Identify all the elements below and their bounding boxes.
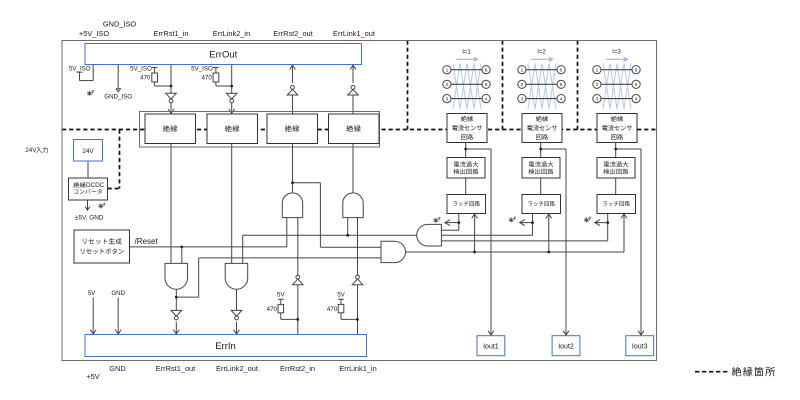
svg-text:5V: 5V (277, 292, 285, 299)
svg-text:Iout3: Iout3 (632, 344, 648, 351)
svg-text:I=3: I=3 (612, 50, 621, 56)
svg-text:1: 1 (521, 67, 524, 73)
svg-text:ErrRst2_in: ErrRst2_in (280, 364, 315, 373)
svg-text:6: 6 (485, 67, 488, 73)
svg-text:I=1: I=1 (462, 50, 471, 56)
svg-text:5V_ISO: 5V_ISO (69, 65, 91, 72)
svg-text:ErrRst1_out: ErrRst1_out (156, 364, 195, 373)
svg-text:ErrLink2_in: ErrLink2_in (213, 29, 250, 38)
svg-text:5V: 5V (337, 292, 345, 299)
svg-text:I=2: I=2 (537, 50, 546, 56)
svg-text:ErrIn: ErrIn (215, 341, 236, 352)
svg-text:GND_ISO: GND_ISO (103, 20, 137, 29)
svg-text:ErrRst2_out: ErrRst2_out (273, 29, 312, 38)
svg-text:5V_ISO: 5V_ISO (130, 65, 152, 72)
svg-text:Iout1: Iout1 (483, 344, 499, 351)
svg-text:2: 2 (446, 82, 449, 88)
svg-text:ErrLink2_out: ErrLink2_out (216, 364, 258, 373)
svg-text:5: 5 (560, 82, 563, 88)
svg-text:±5V, GND: ±5V, GND (75, 214, 104, 221)
svg-text:GND: GND (109, 364, 125, 373)
svg-text:/Reset: /Reset (135, 237, 159, 246)
svg-text:3: 3 (596, 96, 599, 102)
svg-text:5: 5 (485, 82, 488, 88)
svg-text:470: 470 (267, 306, 278, 313)
svg-text:ErrOut: ErrOut (209, 49, 237, 60)
svg-text:DCDC: DCDC (86, 182, 105, 189)
svg-text:ErrLink1_in: ErrLink1_in (339, 364, 376, 373)
svg-text:Iout2: Iout2 (558, 344, 574, 351)
svg-text:+5V: +5V (86, 372, 99, 381)
svg-text:1: 1 (596, 67, 599, 73)
svg-text:470: 470 (140, 75, 151, 82)
svg-text:5V: 5V (88, 290, 96, 297)
svg-text:2: 2 (596, 82, 599, 88)
svg-text:24V: 24V (82, 148, 94, 155)
svg-text:2: 2 (521, 82, 524, 88)
svg-text:5V_ISO: 5V_ISO (191, 65, 213, 72)
svg-text:+5V_ISO: +5V_ISO (79, 29, 109, 38)
svg-text:24V: 24V (25, 147, 37, 154)
svg-text:470: 470 (327, 306, 338, 313)
svg-text:GND_ISO: GND_ISO (104, 93, 132, 100)
svg-text:ErrRst1_in: ErrRst1_in (154, 29, 189, 38)
svg-text:GND: GND (111, 290, 125, 297)
svg-text:6: 6 (635, 67, 638, 73)
svg-text:3: 3 (521, 96, 524, 102)
svg-text:1: 1 (446, 67, 449, 73)
svg-text:6: 6 (560, 67, 563, 73)
svg-text:ErrLink1_out: ErrLink1_out (333, 29, 375, 38)
svg-text:5: 5 (635, 82, 638, 88)
svg-text:4: 4 (560, 96, 563, 102)
svg-text:4: 4 (485, 96, 488, 102)
svg-text:4: 4 (635, 96, 638, 102)
svg-text:3: 3 (446, 96, 449, 102)
svg-text:470: 470 (201, 75, 212, 82)
